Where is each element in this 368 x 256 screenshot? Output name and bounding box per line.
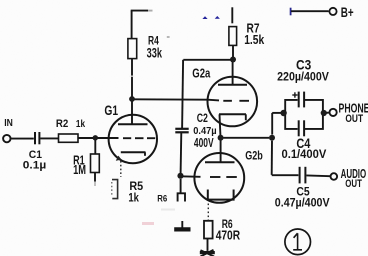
svg-text:0.1µ: 0.1µ (23, 159, 46, 171)
svg-text:1M: 1M (73, 162, 86, 177)
svg-text:R2: R2 (56, 118, 68, 130)
svg-text:C2: C2 (197, 111, 208, 125)
svg-text:G2b: G2b (245, 148, 263, 162)
svg-text:R6: R6 (157, 193, 167, 203)
svg-text:0.1/400V: 0.1/400V (282, 147, 327, 161)
svg-text:33k: 33k (147, 45, 163, 61)
svg-text:1k: 1k (76, 119, 85, 130)
svg-text:G1: G1 (104, 102, 118, 118)
svg-text:1.5k: 1.5k (244, 33, 264, 47)
svg-text:B+: B+ (341, 5, 354, 20)
svg-text:400V: 400V (194, 136, 214, 150)
svg-text:470R: 470R (216, 229, 240, 243)
svg-text:OUT: OUT (345, 113, 363, 125)
svg-text:220µ/400V: 220µ/400V (277, 72, 329, 84)
svg-text:1k: 1k (128, 191, 139, 205)
svg-text:IN: IN (4, 117, 13, 129)
svg-text:0.47µ/400V: 0.47µ/400V (275, 196, 330, 210)
svg-text:C3: C3 (296, 57, 312, 72)
svg-text:G2a: G2a (192, 66, 211, 81)
svg-text:OUT: OUT (345, 178, 362, 190)
